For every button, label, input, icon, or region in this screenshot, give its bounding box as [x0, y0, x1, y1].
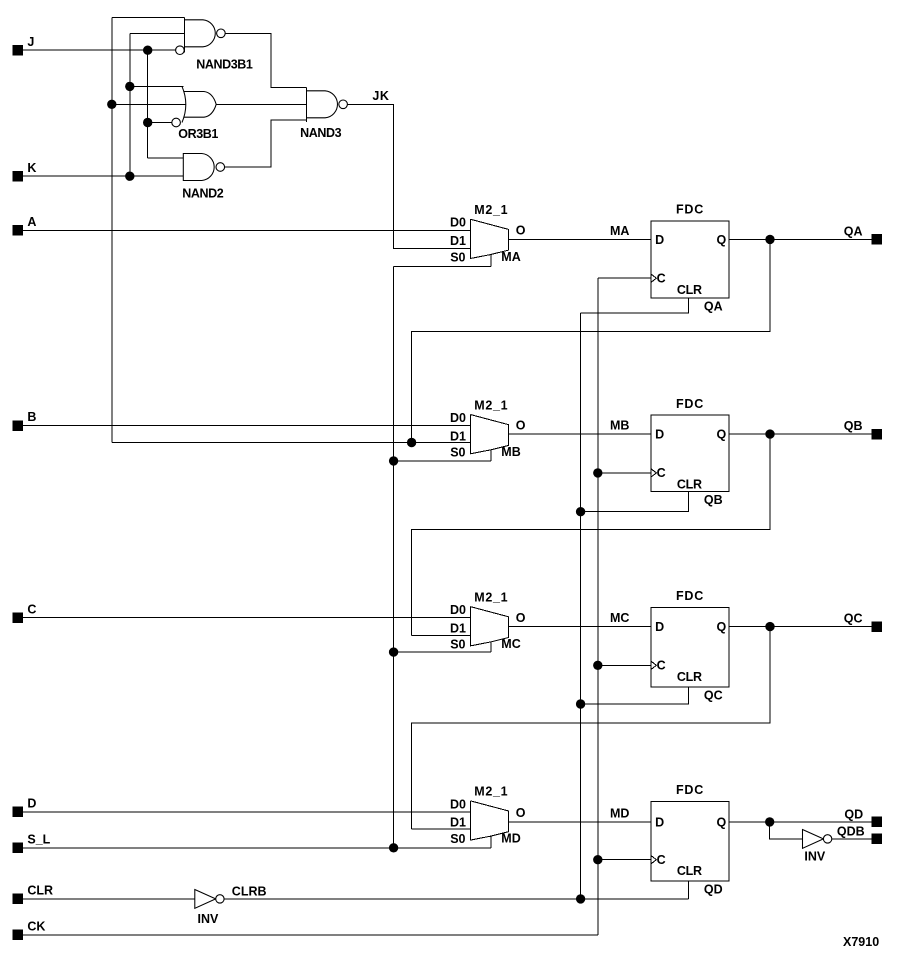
svg-text:D0: D0 — [450, 411, 466, 425]
svg-text:D: D — [655, 428, 664, 442]
svg-text:D: D — [27, 797, 36, 811]
wire CLR input — [23, 898, 195, 900]
svg-text:QD: QD — [844, 807, 863, 821]
wire QDB output — [832, 838, 872, 840]
wire S_L input — [23, 847, 491, 849]
wire OR3B1 middle input — [112, 103, 186, 105]
wire S_L vertical bus — [393, 267, 395, 848]
FDC QD clock triangle — [651, 856, 656, 864]
inverter INV CLRB body — [195, 890, 216, 909]
svg-text:CK: CK — [27, 919, 45, 933]
wire QA feedback to MB D1 — [412, 239, 770, 442]
wire CK input — [23, 934, 598, 936]
svg-text:J: J — [27, 35, 34, 49]
svg-text:CLRB: CLRB — [232, 884, 267, 898]
inverter INV QDB bubble — [823, 835, 831, 843]
svg-text:JK: JK — [372, 89, 389, 103]
node QA feedback junction — [407, 438, 416, 447]
svg-text:INV: INV — [197, 912, 219, 926]
flip-flop FDC QB body — [651, 415, 729, 492]
wire OR3B1 bottom input — [148, 122, 172, 124]
svg-text:D0: D0 — [450, 797, 466, 811]
svg-text:M2_1: M2_1 — [474, 785, 508, 799]
svg-text:O: O — [516, 806, 526, 820]
wire C branch QA — [598, 277, 651, 279]
FDC QB clock triangle — [651, 469, 656, 477]
svg-text:FDC: FDC — [676, 203, 704, 217]
wire Q output QA — [729, 238, 872, 240]
svg-text:M2_1: M2_1 — [474, 591, 508, 605]
gate NAND2 body — [183, 154, 214, 181]
svg-text:MD: MD — [501, 831, 520, 845]
svg-text:B: B — [27, 410, 36, 424]
node QA-OR3B1 junction — [107, 100, 116, 109]
node S_L junction row D — [389, 843, 398, 852]
wire mux output MD to FDC D — [509, 821, 652, 823]
svg-text:CLR: CLR — [677, 670, 702, 684]
svg-text:C: C — [657, 466, 666, 480]
node Q junction QD — [765, 817, 774, 826]
mux M2_1 MC body — [470, 607, 508, 646]
svg-text:A: A — [27, 215, 36, 229]
svg-text:FDC: FDC — [676, 783, 704, 797]
svg-text:S0: S0 — [450, 250, 465, 264]
wire K bus vertical — [129, 33, 131, 176]
mux M2_1 MB body — [470, 415, 508, 454]
wire NAND3B1 middle input — [130, 32, 185, 34]
mux MC S0 stub — [490, 642, 492, 652]
svg-text:INV: INV — [804, 850, 826, 864]
svg-text:S0: S0 — [450, 832, 465, 846]
wire Q output QC — [729, 626, 872, 628]
wire CK vertical bus — [597, 278, 599, 935]
wire C branch QC — [598, 664, 651, 666]
gate OR3B1 input bubble — [172, 118, 181, 127]
svg-text:D: D — [655, 233, 664, 247]
svg-text:QC: QC — [704, 688, 723, 702]
mux M2_1 MD body — [470, 801, 508, 840]
gate NAND3 body — [307, 91, 338, 118]
wire C branch QD — [598, 859, 651, 861]
wire NAND2 output to NAND3 — [225, 120, 307, 167]
svg-text:K: K — [27, 161, 36, 175]
node J-OR3B1 junction — [143, 118, 152, 127]
wire CLR stub QD — [688, 881, 690, 899]
mux MA S0 stub — [490, 255, 492, 267]
wire Q output QB — [729, 433, 872, 435]
svg-text:FDC: FDC — [676, 589, 704, 603]
node CK junction QB — [593, 468, 602, 477]
mux M2_1 MA body — [470, 219, 508, 258]
flip-flop FDC QA body — [651, 221, 729, 298]
input terminal S_L — [13, 843, 23, 853]
wire S0 branch row A — [394, 266, 491, 268]
svg-text:C: C — [657, 658, 666, 672]
wire D input — [23, 811, 470, 813]
svg-text:QC: QC — [844, 612, 863, 626]
svg-text:D0: D0 — [450, 216, 466, 230]
svg-text:M2_1: M2_1 — [474, 203, 508, 217]
svg-text:CLR: CLR — [677, 477, 702, 491]
wire D1 input MD — [412, 828, 471, 830]
svg-text:QDB: QDB — [837, 825, 865, 839]
svg-text:Q: Q — [717, 815, 727, 829]
svg-text:NAND3B1: NAND3B1 — [196, 57, 253, 71]
svg-text:CLR: CLR — [677, 864, 702, 878]
svg-text:MB: MB — [610, 419, 629, 433]
gate NAND3B1 body — [184, 20, 215, 47]
wire JK net to mux D1 — [347, 104, 470, 248]
wire D1 input MC — [412, 635, 471, 637]
input terminal D — [13, 807, 23, 817]
input terminal B — [13, 420, 23, 430]
flip-flop FDC QD body — [651, 802, 729, 881]
gate NAND3 output bubble — [339, 100, 348, 109]
flip-flop FDC QC body — [651, 608, 729, 687]
svg-text:D: D — [655, 815, 664, 829]
node Q junction QB — [765, 429, 774, 438]
node CLRB junction — [576, 894, 585, 903]
svg-text:S_L: S_L — [27, 832, 50, 846]
svg-text:D1: D1 — [450, 234, 466, 248]
svg-text:CLR: CLR — [677, 283, 702, 297]
svg-text:C: C — [657, 271, 666, 285]
svg-text:O: O — [516, 224, 526, 238]
input terminal C — [13, 613, 23, 623]
svg-text:QB: QB — [704, 493, 723, 507]
wire C input — [23, 617, 470, 619]
mux MD S0 stub — [490, 836, 492, 848]
wire NAND3B1 top input — [112, 16, 185, 18]
wire QB feedback to MC D1 — [412, 434, 770, 635]
wire NAND3B1 output to NAND3 — [225, 33, 306, 87]
svg-text:O: O — [516, 611, 526, 625]
svg-text:Q: Q — [717, 233, 727, 247]
wire S0 branch row C — [394, 651, 491, 653]
wire A input — [23, 229, 470, 231]
node Q junction QC — [765, 622, 774, 631]
svg-text:C: C — [27, 602, 36, 616]
node CK junction QD — [593, 855, 602, 864]
svg-text:D1: D1 — [450, 621, 466, 635]
wire NAND2 top input — [148, 157, 184, 159]
gate NAND2 output bubble — [216, 163, 225, 172]
node Q junction QA — [765, 235, 774, 244]
inverter INV CLRB bubble — [216, 895, 224, 903]
svg-text:NAND2: NAND2 — [182, 186, 224, 200]
node CLR junction QC — [576, 699, 585, 708]
svg-text:MC: MC — [501, 637, 520, 651]
svg-text:D: D — [655, 620, 664, 634]
gate NAND3B1 input bubble — [176, 46, 185, 55]
svg-text:QA: QA — [844, 224, 863, 238]
svg-text:CLR: CLR — [27, 884, 53, 898]
svg-text:MA: MA — [610, 224, 629, 238]
wire CLR vertical bus — [580, 313, 582, 899]
svg-text:D0: D0 — [450, 603, 466, 617]
output terminal QA — [872, 234, 882, 244]
wire K input — [23, 175, 183, 177]
node K-OR3B1 junction — [125, 82, 134, 91]
wire mux output MB to FDC D — [509, 433, 652, 435]
svg-text:X7910: X7910 — [843, 935, 879, 949]
wire J input — [23, 49, 176, 51]
wire CLRB net — [224, 898, 688, 900]
node S_L junction row B — [389, 456, 398, 465]
wire Q output QD — [729, 821, 872, 823]
svg-text:M2_1: M2_1 — [474, 398, 508, 412]
node S_L junction row C — [389, 647, 398, 656]
svg-text:MD: MD — [610, 806, 629, 820]
output terminal QDB — [872, 834, 882, 844]
svg-text:Q: Q — [717, 428, 727, 442]
wire CLR stub QC — [581, 687, 689, 704]
svg-text:NAND3: NAND3 — [300, 126, 342, 140]
svg-text:S0: S0 — [450, 638, 465, 652]
gate OR3B1 body — [183, 92, 216, 118]
mux MB S0 stub — [490, 450, 492, 461]
wire QA feedback bus vertical — [111, 17, 113, 442]
node J bus junction — [143, 46, 152, 55]
wire QD to inverter — [770, 822, 803, 839]
wire mux output MC to FDC D — [509, 626, 652, 628]
input terminal J — [13, 45, 23, 55]
svg-text:MC: MC — [610, 611, 629, 625]
gate OR3B1 back arc — [182, 86, 186, 122]
svg-text:Q: Q — [717, 620, 727, 634]
wire C branch QB — [598, 472, 651, 474]
wire CLR stub QB — [581, 492, 689, 512]
wire QC feedback to MD D1 — [412, 627, 770, 829]
wire J bus vertical — [147, 50, 149, 158]
node CLR junction QB — [576, 507, 585, 516]
inverter INV QDB body — [803, 830, 824, 849]
svg-text:MB: MB — [501, 445, 520, 459]
wire CLR stub QA — [581, 298, 689, 313]
node CK junction QC — [593, 661, 602, 670]
output terminal QC — [872, 621, 882, 631]
svg-text:C: C — [657, 853, 666, 867]
input terminal CK — [13, 930, 23, 940]
input terminal A — [13, 225, 23, 235]
svg-text:QB: QB — [844, 419, 863, 433]
svg-text:QA: QA — [704, 299, 723, 313]
svg-text:OR3B1: OR3B1 — [178, 127, 218, 141]
svg-text:QD: QD — [704, 882, 723, 896]
FDC QA clock triangle — [651, 274, 656, 282]
FDC QC clock triangle — [651, 661, 656, 669]
output terminal QB — [872, 429, 882, 439]
wire OR3B1 output to NAND3 — [216, 103, 306, 105]
node K bus junction — [125, 172, 134, 181]
wire OR3B1 top input — [130, 85, 184, 87]
svg-text:FDC: FDC — [676, 397, 704, 411]
output terminal QD — [872, 817, 882, 827]
svg-text:S0: S0 — [450, 446, 465, 460]
wire B input — [23, 425, 470, 427]
gate NAND3B1 output bubble — [217, 29, 226, 38]
wire S0 branch row B — [394, 460, 491, 462]
svg-text:MA: MA — [501, 250, 520, 264]
svg-text:D1: D1 — [450, 816, 466, 830]
input terminal CLR — [13, 894, 23, 904]
svg-text:O: O — [516, 418, 526, 432]
wire QA row feedback horizontal — [112, 442, 471, 444]
svg-text:D1: D1 — [450, 429, 466, 443]
input terminal K — [13, 171, 23, 181]
wire mux output MA to FDC D — [509, 238, 652, 240]
